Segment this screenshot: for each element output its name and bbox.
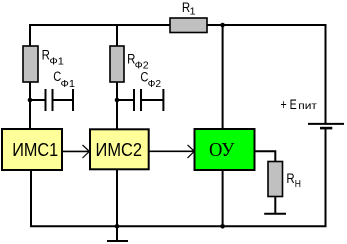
resistor RF2 body — [110, 46, 124, 82]
wire: RH bottom lead — [274, 197, 276, 214]
svg-text:Ф1: Ф1 — [61, 78, 76, 90]
svg-text:Ф2: Ф2 — [148, 78, 162, 90]
ground (main) — [107, 226, 128, 241]
svg-text:Ф1: Ф1 — [49, 56, 64, 68]
wire: IMC2 bottom to bottom rail — [116, 169, 118, 226]
svg-text:H: H — [295, 178, 301, 190]
block OU (op-amp) — [195, 129, 255, 170]
capacitor CF1 plates — [46, 89, 53, 111]
ground (RH) — [264, 213, 286, 215]
resistor RF1 body — [23, 46, 38, 82]
svg-text:ИМС1: ИМС1 — [12, 139, 58, 160]
battery E: negative short plate — [320, 127, 332, 130]
node E junction dot (222.6,226.3) — [220, 224, 225, 229]
wire: top rail from left corner through R1 to top-right corner — [30, 24, 326, 26]
wire: from top rail down to OU top — [222, 25, 224, 130]
wire: bottom rail — [30, 170, 327, 227]
wire: left branch x=30 from top rail to IMC1 — [29, 24, 31, 130]
wire: middle branch x=117 from top rail to RF2 — [116, 24, 118, 130]
capacitor CF2: left lead wire — [117, 99, 133, 101]
block IMC1 — [2, 129, 62, 170]
wire: right rail from battery - terminal to bottom-right corner — [325, 128, 327, 226]
svg-text:ИМС2: ИМС2 — [96, 139, 143, 160]
capacitor CF2 right lead wire and end bar — [142, 89, 163, 111]
arrow IMC2 to OU — [149, 150, 194, 152]
capacitor CF1 right lead wire and end bar — [54, 89, 74, 111]
svg-text:пит: пит — [298, 100, 317, 112]
node D junction dot (222.6,25) — [220, 23, 225, 28]
block IMC2 — [90, 129, 149, 169]
svg-text:1: 1 — [190, 5, 196, 17]
node A junction dot (30,100) — [28, 98, 33, 103]
wire: right rail down to battery + terminal — [325, 24, 327, 124]
svg-text:R: R — [286, 170, 294, 186]
svg-text:+ E: + E — [281, 96, 297, 112]
capacitor CF2 plates — [134, 89, 141, 111]
capacitor CF1: left lead wire — [30, 99, 45, 101]
svg-text:ОУ: ОУ — [209, 140, 235, 161]
battery E: positive long plate — [308, 123, 344, 125]
resistor RH body — [268, 162, 283, 197]
resistor R1 body — [170, 18, 207, 33]
wire: OU bottom to bottom rail — [222, 170, 224, 226]
node B junction dot (117,100) — [115, 98, 120, 103]
wire: OU output to RH — [255, 150, 276, 162]
node C junction dot (117,226.3) — [115, 224, 120, 229]
arrow IMC1 to IMC2 — [62, 150, 89, 152]
